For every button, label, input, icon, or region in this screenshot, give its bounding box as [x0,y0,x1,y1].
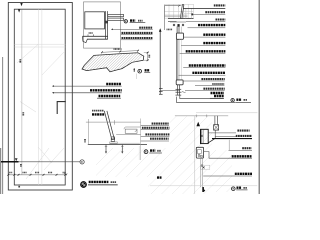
right label 2 [205,11,225,13]
roof deck second line [168,21,177,23]
jamb label 3 [232,155,252,157]
m-label 4 leader [141,140,169,142]
right label 4 [198,24,225,26]
leader elbow L2 [176,97,235,103]
vertical dimension line with rotated numbers [21,10,23,175]
right label 3 leader [186,21,225,23]
ridge vertical pair [180,5,182,19]
glazing bar upper [108,14,124,16]
head label row2 leader [121,34,153,36]
sill callout circle [138,69,142,73]
jamb leader 1 [208,132,236,134]
title D circle [232,187,236,191]
stone sill box [201,129,209,143]
section line with arrow [159,32,161,95]
stone sill x-mark [201,135,203,137]
sill callout leader [133,69,135,72]
big title underline [88,184,118,186]
mullion clip mark [105,21,107,23]
beam dim rotated number [84,139,86,143]
right label 10 leader [183,80,225,82]
head drip lip [83,36,88,42]
title C underline [149,152,162,154]
jamb lower verticals [200,158,202,187]
right label 9 leader [179,74,226,76]
right label 7 leader [180,53,226,55]
right label 13 [211,92,224,94]
jamb label 1b [236,135,252,137]
right label 8 [189,64,226,66]
support beam top line [110,142,140,144]
sill callout text [145,69,150,71]
sloped glazing double line [104,111,112,140]
hanger bolt 2 [121,145,123,153]
m-label 3 [145,133,169,135]
right label 10 [201,78,224,80]
support beam main line [88,144,147,146]
step box [125,129,137,133]
jamb leader 2 [215,135,236,137]
small dimension 240 on head band [87,34,89,36]
jamb label 4 [235,173,252,175]
section line break ticks [159,88,163,90]
sill label 1 [106,83,121,85]
level text at section line [167,28,173,30]
m-label 1 leader [141,125,169,127]
right label 14 leader [210,97,224,99]
elevation inner frame [14,9,65,185]
right label 7 [186,50,226,52]
sill callout underline [144,72,150,74]
jamb label 2 leader [229,149,253,151]
dashed detail boundary [84,2,121,48]
right label 2 leader [192,13,225,15]
anchor verticals [214,116,216,125]
title B underline [236,101,251,103]
right label 5 [203,34,225,36]
m-label 2 leader [141,129,170,131]
faint upper floor line [196,112,257,114]
glazing label light row [92,110,104,112]
beam gather line 3 [116,134,141,136]
right label 5 leader [184,36,226,38]
right label 9 [192,72,225,74]
steel tube box upper [176,33,183,39]
head label row1 leader [113,28,153,30]
title A underline [130,22,146,24]
m-label 1 [152,123,169,125]
title D text [237,186,242,188]
jamb label 4 leader [203,175,252,177]
section cut thick bar [1,161,19,163]
tiny concrete text [157,176,162,178]
m-label 4 [150,138,169,140]
level arrow bottom detail [196,122,200,127]
bottom section mark [203,187,204,192]
title A circle [124,20,127,23]
floor level line [175,115,228,117]
sill label 3 leader [97,97,121,99]
roof deck light grid [164,4,193,18]
sill label 1 leader [54,85,122,87]
mullion lower verticals [176,85,178,95]
leader line to callout b [19,161,81,163]
roof top line [165,5,182,7]
elevation outer frame [8,3,72,191]
jamb label 1a [237,130,249,132]
m-label 3 leader [141,136,170,138]
wall faint vertical [194,116,196,194]
anchor tail vertical [214,130,216,138]
faint background hatch bottom-right [67,102,320,194]
head label row3 [122,37,153,39]
sheet right border [258,0,260,194]
big title double circle [81,182,87,188]
level mark top outer [20,3,22,6]
head wall box [85,12,105,29]
glass shoe clamp [110,142,118,144]
alum profile inner marks [198,155,200,157]
sill callout tail line [135,74,137,79]
title C circle [144,150,148,154]
title B circle [231,99,234,102]
steel tube box lower [176,80,183,85]
sloped sill profile outline [82,53,144,72]
hanger bolt 1 [105,145,107,153]
mullion bottom break ticks [176,88,182,90]
roof deck bottom line [168,18,194,20]
roof left edge line [164,5,166,30]
sheet left edge line 2 [2,57,4,194]
sill label 3 [99,95,121,97]
sloped detail top dimension [102,51,138,53]
right label 6 leader [181,45,225,47]
jamb label 2 [242,147,251,149]
head label row2 [122,32,153,34]
right label 1 [214,4,226,6]
gather vertical [140,119,142,161]
title C faint tail [138,146,140,160]
right label 11 [212,83,224,85]
alum profile box [196,147,203,158]
mullion upper verticals [176,27,178,34]
jamb label 3 leader [204,152,252,159]
right label 12 leader [185,90,225,92]
callout circle b [80,160,84,164]
section cut tick [15,158,18,161]
glazing label bold row [92,113,105,115]
cross line to mullion [160,89,179,91]
mullion double line [104,11,106,39]
dimension 40 right of sill [144,52,149,54]
level mark top inner [18,9,20,12]
jamb thick underline [212,138,252,140]
small dim mark right of beam [65,172,66,174]
bottom small mark [18,185,20,189]
jamb diagonal leader [208,139,214,143]
glazing clamp assembly [173,24,175,26]
right label 3 [216,18,226,20]
head label row1 [139,27,152,29]
bolt cross marks [201,165,203,167]
glazing bar lower [108,18,124,20]
m-label 2 [142,127,170,129]
right label 11 leader [195,85,224,87]
sheet left edge line [0,148,2,194]
right label 8 leader [183,67,225,69]
right label 12 [203,88,224,90]
right label 4 leader [188,27,226,29]
big title text [89,181,109,183]
sill label 2 leader [54,92,122,94]
leader elbow L1 [180,95,224,98]
sill label 2 [90,89,122,91]
title A text bold [130,19,135,21]
title C text [150,149,155,151]
faint bottom long line [150,185,257,187]
elevation faint mullion grid [37,9,39,185]
title B text [236,98,241,100]
title D underline [236,189,247,191]
anchor box with X [214,125,219,130]
head band lines [83,35,108,37]
elevation detail-cut bracket [57,102,66,114]
mullion mid verticals [175,39,177,80]
right label 6 [203,42,225,44]
beam left corner [87,119,89,145]
bottom dimension line with ticks and numbers [8,174,65,176]
right label 1 leader [183,7,225,9]
beam gather line 1 [86,121,141,123]
beam gather line 2 [125,126,141,128]
elevation faint opening diagonals [42,51,65,75]
roof boards double line [165,14,188,16]
right label 14 [214,95,224,97]
head label row3 leader [121,39,153,41]
sloped sill hatch [62,51,84,73]
fascia light verticals [185,9,187,19]
